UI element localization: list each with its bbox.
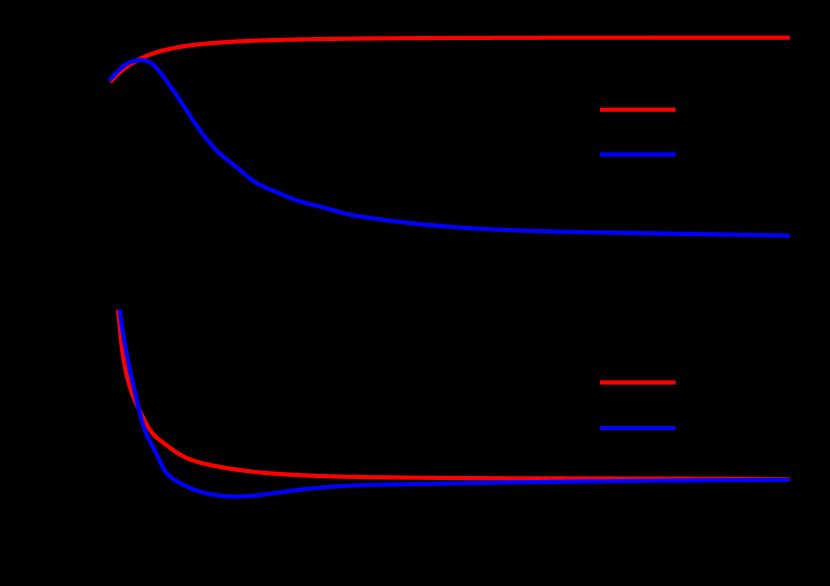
top panel blue curve	[109, 60, 790, 236]
bottom legend red key	[600, 380, 676, 384]
bottom legend blue key	[600, 426, 676, 430]
top legend red key	[600, 108, 676, 112]
bottom panel red curve	[118, 310, 790, 480]
top legend blue key	[600, 152, 676, 156]
bottom panel blue curve	[120, 310, 790, 497]
top panel red curve	[110, 38, 790, 83]
